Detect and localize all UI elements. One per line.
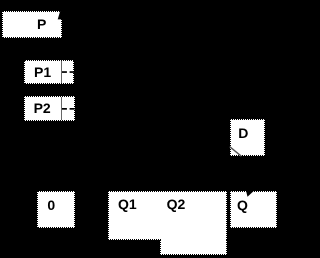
label P1 <box>34 65 51 79</box>
box P1 (overflow page P1) <box>24 60 74 84</box>
arrowhead on box P top-right <box>58 11 62 19</box>
box 0 (bucket 0) <box>37 191 75 228</box>
label Q <box>237 198 248 212</box>
box Q (bucket Q) <box>230 191 277 228</box>
label P <box>37 17 46 31</box>
label Q2 <box>167 197 186 211</box>
line from D to P crossing box D corner <box>230 147 242 157</box>
divider in P1 <box>61 61 63 83</box>
label Q1 <box>118 197 137 211</box>
label 0 <box>47 198 55 212</box>
box Q1Q2 lower extension <box>160 239 227 255</box>
dashed pointer in P2 right cell <box>62 108 67 110</box>
box Q1Q2 (pages Q1 and Q2, L-shaped) <box>108 191 227 240</box>
dashed pointer in P1 right cell <box>62 71 67 73</box>
label D <box>238 126 248 140</box>
label P2 <box>34 101 51 115</box>
box P2 (overflow page P2) <box>24 96 75 121</box>
white patch hiding junction border <box>161 237 225 240</box>
divider in P2 <box>61 97 63 120</box>
box D (directory page D) <box>230 119 265 156</box>
arrowhead on box Q top edge <box>246 191 254 197</box>
box P (bucket page P) <box>2 11 62 38</box>
